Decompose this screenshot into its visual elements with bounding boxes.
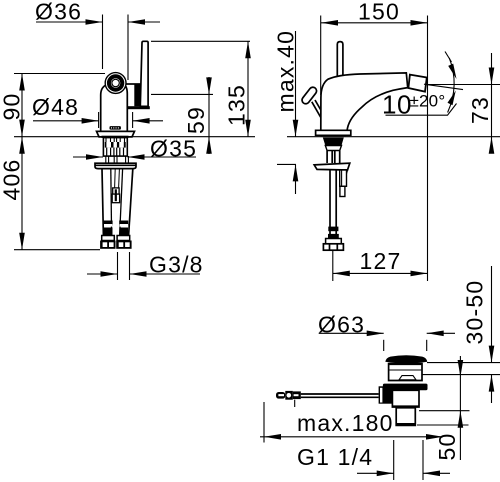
shank trapezoid below mount <box>323 138 344 146</box>
tailpiece <box>396 408 415 426</box>
aerator tilted <box>408 75 426 92</box>
hose clip detail <box>112 188 119 203</box>
dimension 50 <box>458 356 464 460</box>
svg-text:max.180: max.180 <box>297 410 394 436</box>
dimension Ø63 <box>318 312 455 338</box>
dimension 150 <box>321 0 428 26</box>
lever step line <box>126 83 140 85</box>
stubs between box and flange <box>106 156 129 163</box>
extension line x132.6 (Ø48 right) <box>132 112 134 128</box>
extension line y41.3 (135 top) <box>151 40 250 42</box>
angle arc with arrows <box>448 58 455 113</box>
hose nut side <box>323 244 343 250</box>
extension line x102.5 (Ø36 left) <box>102 15 104 70</box>
dimension max.40 <box>293 31 299 194</box>
extension line x321 (150 left) <box>320 16 322 96</box>
hose nuts <box>100 241 131 249</box>
drain plug black dome <box>385 355 427 363</box>
dimension 90 / 406 vertical line <box>19 74 25 250</box>
lever foot shelf <box>128 106 150 109</box>
dimension Ø35 <box>73 136 197 162</box>
svg-text:±20°: ±20° <box>410 92 446 111</box>
faucet spout body side view <box>321 73 408 131</box>
dimension 59 <box>206 77 212 154</box>
hose collars <box>102 236 115 241</box>
extension line x264 (max.180 left) <box>263 402 265 443</box>
flange lip step <box>341 170 347 174</box>
extension line y362.6 (30-50 top) <box>427 362 500 364</box>
G1 1/4 extension lines <box>393 440 395 480</box>
dimension 30-50 <box>489 266 495 403</box>
svg-text:G1 1/4: G1 1/4 <box>297 444 373 470</box>
lever neck (black) <box>134 84 140 106</box>
extension line x427.5 (150 right / 127 right) <box>427 16 429 282</box>
hose end bands right <box>119 221 128 236</box>
tube between shank and flange <box>326 151 328 164</box>
escutcheon front <box>97 131 135 137</box>
rod joint block <box>379 386 393 403</box>
dimension G3/8 <box>87 252 204 278</box>
lever stick side view <box>337 42 343 80</box>
svg-text:90: 90 <box>0 93 25 121</box>
extension line y374.6 (30-50 bottom) <box>420 374 500 376</box>
dimension 73 <box>489 53 495 154</box>
dimension 127 <box>333 248 428 276</box>
extension line x128 (Ø36 right) <box>127 15 129 81</box>
KEUCO logo <box>110 126 121 130</box>
handle pivot circle <box>105 73 126 94</box>
rod tip block 3 <box>293 391 301 399</box>
extension line y84.5 (73 top) <box>427 84 500 86</box>
extension line y73.5 (90 top) <box>14 73 105 75</box>
leader line under 10+-20 <box>386 104 457 116</box>
dimension Ø48 <box>32 94 163 124</box>
dimension max.180 <box>260 410 443 440</box>
skirt inner detail <box>399 376 416 380</box>
hose collar side <box>326 239 342 244</box>
svg-text:406: 406 <box>0 159 25 201</box>
extension line y410.7 (50 top) <box>419 410 470 412</box>
svg-text:10: 10 <box>382 90 412 120</box>
dimension 135 <box>245 41 251 136</box>
dimension Ø36 <box>35 0 160 25</box>
extension line x383.7 (Ø63 left) <box>383 340 385 351</box>
mounting surface line left view <box>14 136 255 138</box>
mounting flange dish side view <box>314 163 350 170</box>
threaded shank box below flange <box>340 170 347 197</box>
dimension G1 1/4 <box>297 444 450 476</box>
escutcheon side view <box>316 130 351 135</box>
svg-text:Ø48: Ø48 <box>32 94 79 120</box>
G3/8 extension lines <box>117 252 119 280</box>
extension line x426.7 (Ø63 right) <box>426 340 428 351</box>
stub line below rod <box>294 400 296 407</box>
lever blade front <box>140 41 148 106</box>
svg-text:Ø35: Ø35 <box>150 136 197 162</box>
extension tick y164.4 (max.40 bottom) <box>277 163 296 165</box>
mounting flange dish front <box>95 163 136 168</box>
waste body flange black bar <box>383 384 428 391</box>
drain pull knob <box>301 86 319 106</box>
waste body <box>392 390 419 407</box>
drain pull rod stem <box>312 102 321 118</box>
faucet body front <box>101 85 128 132</box>
pop-up rod <box>301 393 379 395</box>
extension line y425 (tailpiece bottom) <box>417 424 469 426</box>
extension line x332.8 (127 left) <box>332 251 334 282</box>
extension line y249.7 (406 bottom) <box>14 249 100 251</box>
svg-text:Ø36: Ø36 <box>35 0 82 25</box>
mounting surface line side view <box>287 136 500 138</box>
svg-text:73: 73 <box>467 96 493 124</box>
extension line y94.4 (59 top) <box>151 93 213 95</box>
svg-text:max.40: max.40 <box>273 30 299 113</box>
supply hose side view <box>329 169 331 236</box>
rod tip block 1 <box>276 392 285 399</box>
svg-text:30-50: 30-50 <box>462 280 488 345</box>
angle arc end tick <box>445 52 452 63</box>
svg-text:135: 135 <box>224 84 250 126</box>
svg-text:150: 150 <box>358 0 400 25</box>
shank box under escutcheon <box>103 138 127 157</box>
hose end bands left <box>104 221 113 236</box>
plug skirt <box>389 364 422 381</box>
rod tip block 2 <box>285 391 293 400</box>
hose bands side <box>328 227 338 232</box>
body bottom edge <box>392 405 419 407</box>
extension line x98.6 (Ø48 left) <box>98 112 100 128</box>
svg-text:59: 59 <box>183 106 209 134</box>
svg-text:127: 127 <box>360 248 402 274</box>
supply hoses front <box>102 169 133 236</box>
angled axis line 10 deg <box>424 84 463 89</box>
